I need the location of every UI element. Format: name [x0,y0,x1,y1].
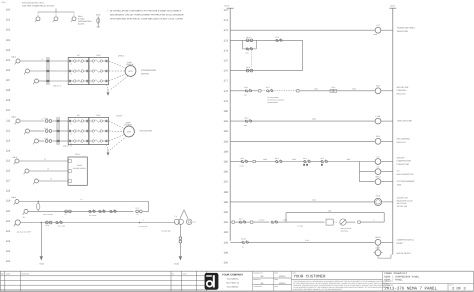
svg-text:2T: 2T [71,73,73,75]
svg-text:1755RPM: 1755RPM [126,63,134,66]
svg-text:1/28/13: 1/28/13 [279,275,287,278]
svg-text:271: 271 [224,19,229,22]
svg-text:RESET: RESET [397,242,404,245]
svg-text:AT INSTALLATION CUSTOMER IS TO: AT INSTALLATION CUSTOMER IS TO PROVIDE A… [110,10,182,13]
svg-text:INDICATOR: INDICATOR [397,30,408,33]
svg-text:JW: JW [261,275,264,278]
svg-text:HIGH AIR TEMP: HIGH AIR TEMP [397,120,413,123]
svg-text:CHECKED BY: CHECKED BY [253,286,262,288]
svg-text:288: 288 [224,191,229,194]
svg-text:L1: L1 [44,158,46,161]
svg-text:221: 221 [6,220,11,223]
svg-text:207: 207 [6,79,11,82]
svg-text:295: 295 [224,262,229,265]
svg-text:2 OF 3: 2 OF 3 [452,286,466,291]
svg-text:3T: 3T [71,83,73,85]
svg-text:(-CR1): (-CR1) [240,165,245,167]
svg-text:214: 214 [6,149,11,152]
svg-text:273: 273 [224,39,229,42]
svg-text:HR-M: HR-M [376,194,381,197]
svg-text:1140RPM: 1140RPM [124,124,132,127]
svg-text:DB-A: DB-A [12,196,17,199]
svg-text:277: 277 [224,80,229,83]
svg-text:212: 212 [6,129,11,132]
svg-text:MTR-F: MTR-F [117,114,124,117]
svg-text:211: 211 [6,119,11,122]
svg-text:279: 279 [224,100,229,103]
svg-text:COMPRESSOR: COMPRESSOR [397,160,412,163]
svg-text:218: 218 [6,190,11,193]
svg-text:POWER ON PANEL: POWER ON PANEL [397,27,416,30]
svg-text:DRAWING NO.: DRAWING NO. [384,284,394,286]
svg-text:L2: L2 [47,168,49,171]
svg-text:SOLENOID VALVE: SOLENOID VALVE [397,199,414,202]
svg-text:293: 293 [224,241,229,244]
svg-text:CONTROL: CONTROL [397,89,408,92]
svg-text:284: 284 [224,150,229,153]
svg-text:292: 292 [224,231,229,234]
svg-text:281: 281 [224,120,229,123]
svg-text:AIR TO AIR: AIR TO AIR [397,202,407,205]
svg-text:RELAY #2: RELAY #2 [397,93,407,96]
svg-text:NEMA 7 PANEL: NEMA 7 PANEL [384,279,403,282]
svg-text:278: 278 [224,90,229,93]
svg-text:AIR DRY AIR: AIR DRY AIR [397,86,409,89]
svg-text:208: 208 [6,89,11,92]
svg-text:DESIGNED BY: DESIGNED BY [253,273,263,275]
svg-text:280: 280 [224,110,229,113]
svg-text:L3: L3 [50,178,52,181]
svg-text:L-07: L-07 [376,24,380,27]
svg-text:TO DRY AIR: TO DRY AIR [397,205,408,208]
svg-text:SHEET: SHEET [449,284,454,286]
svg-text:YOUR CUSTOMER: YOUR CUSTOMER [294,275,326,280]
svg-text:POWER SUPPLY: POWER SUPPLY [73,167,87,170]
svg-text:Your Phone no: Your Phone no [226,282,240,285]
svg-text:282: 282 [224,130,229,133]
svg-text:AND BRANCH CIRCUIT OVERCURRENT: AND BRANCH CIRCUIT OVERCURRENT PROTECTIO… [110,14,184,17]
svg-text:291: 291 [224,221,229,224]
svg-text:L1: L1 [42,117,44,120]
svg-text:272: 272 [224,29,229,32]
svg-text:FOR: FOR [293,272,296,274]
svg-text:294: 294 [224,251,229,254]
svg-text:206: 206 [6,69,11,72]
svg-text:575V-30V 60 HZ 27 FLA: 575V-30V 60 HZ 27 FLA [22,1,44,4]
svg-text:DB-A: DB-A [12,55,17,58]
svg-text:OL-C: OL-C [96,54,101,57]
svg-text:205: 205 [6,59,11,62]
svg-text:201: 201 [6,19,11,22]
svg-text:AIR CONTROL: AIR CONTROL [397,138,412,141]
svg-text:225: 225 [6,260,11,263]
svg-text:220: 220 [6,210,11,213]
svg-text:DRAWN BY: DRAWN BY [253,279,261,281]
svg-text:FAN OL RESET: FAN OL RESET [397,252,412,255]
svg-text:TIME: TIME [397,183,402,186]
svg-text:OLR-C: OLR-C [375,236,381,239]
svg-text:DB-A: DB-A [12,115,17,118]
svg-text:L1: L1 [42,57,44,60]
svg-text:1/28/13: 1/28/13 [279,282,287,285]
svg-text:SIZE PER SYMMETRICAL AT 575V: SIZE PER SYMMETRICAL AT 575V [22,5,55,8]
svg-text:CR-2: CR-2 [376,85,380,88]
svg-text:222: 222 [6,230,11,233]
svg-text:203: 203 [6,39,11,42]
svg-text:N/280: N/280 [174,263,179,266]
svg-text:SYSTEM RUNNING: SYSTEM RUNNING [397,180,416,183]
svg-text:1T: 1T [71,63,73,65]
svg-text:275: 275 [224,60,229,63]
svg-text:283: 283 [224,140,229,143]
svg-text:CR-1: CR-1 [376,135,380,138]
svg-text:CONTACTOR: CONTACTOR [397,163,410,166]
svg-text:JW: JW [261,282,264,285]
svg-text:3T: 3T [71,143,73,145]
svg-text:290: 290 [224,211,229,214]
svg-text:H/280: H/280 [39,263,44,266]
svg-text:270: 270 [224,9,229,12]
svg-text:216: 216 [6,170,11,173]
svg-text:210: 210 [6,109,11,112]
svg-text:2T: 2T [71,133,73,135]
svg-text:MOTOR: MOTOR [141,72,149,75]
svg-text:AIR DRY AIR: AIR DRY AIR [397,197,409,200]
svg-text:WITH NATIONAL ELECTRICAL CODE: WITH NATIONAL ELECTRICAL CODE (NEC) AND … [110,18,184,21]
svg-text:DB-A: DB-A [13,156,18,159]
svg-text:-2-C AUX: -2-C AUX [297,226,303,228]
svg-text:289: 289 [224,201,229,204]
svg-text:276: 276 [224,70,229,73]
svg-text:202: 202 [6,29,11,32]
svg-text:MTR-C: MTR-C [118,54,125,57]
svg-text:COMPRESSOR: COMPRESSOR [141,69,157,72]
svg-text:*: * [107,10,108,13]
svg-text:200: 200 [6,9,11,12]
svg-text:217: 217 [6,180,11,183]
svg-text:GND: GND [96,14,101,17]
svg-text:219: 219 [6,200,11,203]
svg-text:FAN MOTOR: FAN MOTOR [140,130,153,133]
svg-text:213: 213 [6,139,11,142]
svg-text:285: 285 [224,161,229,164]
svg-text:1-C: 1-C [397,169,401,172]
svg-text:L1: L1 [81,198,83,201]
svg-text:274: 274 [224,49,229,52]
svg-text:AIR DRY: AIR DRY [397,156,406,159]
svg-text:24VDC: 24VDC [77,164,83,167]
svg-text:DATE: DATE [275,273,279,275]
svg-text:Your Website: Your Website [227,286,240,289]
svg-text:BLOCK: BLOCK [78,22,85,25]
svg-text:2013-376 NEMA 7 PANEL: 2013-376 NEMA 7 PANEL [384,286,437,291]
svg-text:MTR: MTR [127,131,132,134]
svg-text:204: 204 [6,49,11,52]
svg-text:215: 215 [6,160,11,163]
svg-text:ATR-C: ATR-C [375,176,381,179]
svg-text:224: 224 [6,250,11,253]
svg-text:FAN CONTACTOR: FAN CONTACTOR [397,173,414,176]
svg-text:DATE: DATE [275,286,279,288]
svg-text:COMPRESSOR OL: COMPRESSOR OL [397,239,416,242]
svg-text:N/270: N/270 [390,5,395,8]
svg-text:MTR: MTR [129,70,134,73]
svg-text:RELAY #1: RELAY #1 [397,141,407,144]
svg-text:Your Address: Your Address [227,278,239,281]
svg-text:209: 209 [6,99,11,102]
svg-text:223: 223 [6,240,11,243]
svg-text:287: 287 [224,181,229,184]
svg-text:286: 286 [224,171,229,174]
svg-text:DATE: DATE [275,279,279,281]
svg-text:H/270: H/270 [224,5,229,8]
svg-text:YOUR COMPANY: YOUR COMPANY [222,274,244,277]
svg-text:PS-A: PS-A [75,153,80,156]
svg-text:1T: 1T [71,123,73,125]
